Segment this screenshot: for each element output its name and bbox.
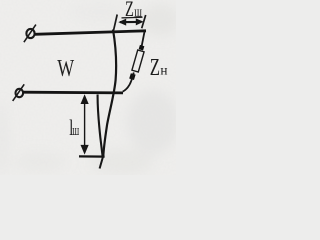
dimension arrow h (vertical) — [81, 94, 89, 154]
svg-text:ш: ш — [72, 122, 79, 139]
wire wedge left edge (vibrator taper) — [98, 95, 103, 156]
wire slant from resistor to bottom wire end — [123, 73, 134, 92]
wire slant from top wire end to resistor — [142, 30, 145, 46]
svg-text:Z: Z — [125, 0, 134, 22]
svg-text:н: н — [160, 62, 167, 77]
svg-text:Z: Z — [150, 56, 160, 81]
ground bar bottom — [79, 155, 105, 158]
dimension tick right (above wire end) — [142, 15, 146, 28]
terminal top-left (circle with slash) — [24, 25, 36, 43]
resistor top terminal blob — [139, 45, 145, 51]
svg-text:W: W — [57, 54, 75, 81]
terminal bottom-left (circle with slash) — [13, 84, 25, 101]
resistor bottom terminal blob — [129, 73, 135, 80]
wire vertical element (vibrator lead) — [103, 30, 116, 157]
wire top horizontal — [35, 31, 147, 35]
paper background — [0, 0, 176, 175]
underline under Zsh — [122, 16, 143, 19]
wire bottom horizontal — [23, 91, 123, 95]
dimension tick left (above top wire) — [114, 15, 118, 31]
dimension double arrow Zsh — [118, 18, 143, 25]
resistor Zn body — [132, 50, 144, 72]
wire tail below ground bar — [100, 156, 104, 169]
